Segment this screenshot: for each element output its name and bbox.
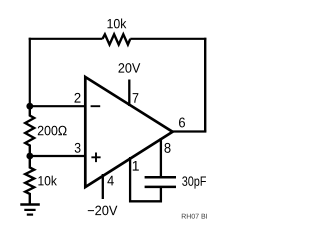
pin 7 stub (V+ supply) xyxy=(128,80,130,107)
node A junction dot (inverting input node) xyxy=(26,103,33,110)
wire: node B to pin 3 xyxy=(30,155,86,157)
capacitor 30pF plates xyxy=(145,177,176,202)
pin 4 label xyxy=(107,176,113,186)
resistor 10k (left lower zigzag to ground) xyxy=(25,156,34,204)
pin 7 label xyxy=(133,93,139,103)
wire: top feedback wire right segment xyxy=(130,38,206,40)
minus sign (inverting input marker) xyxy=(91,105,101,107)
pin 1 stub xyxy=(129,157,131,202)
figure id RH07 BI xyxy=(182,214,207,219)
wire: pin 1 to capacitor bottom xyxy=(129,200,162,202)
value label 10k (top) xyxy=(108,19,127,29)
value label 10k (left) xyxy=(38,176,57,186)
node B junction dot (non-inverting input node) xyxy=(26,153,33,160)
pin 1 label xyxy=(133,161,139,171)
wire: right vertical from feedback to output xyxy=(204,38,206,132)
wire: top feedback wire left segment xyxy=(29,38,103,40)
pin 6 label xyxy=(179,118,185,128)
pin 3 label xyxy=(75,143,81,153)
value label 200ohm xyxy=(38,126,67,136)
pin 8 label xyxy=(164,143,170,153)
op-amp U1 triangle xyxy=(85,77,172,187)
value label 30pF xyxy=(182,176,206,188)
ground symbol xyxy=(20,205,40,215)
resistor 10k (top feedback zigzag) xyxy=(103,34,131,44)
plus sign (non-inverting input marker) xyxy=(91,153,100,163)
pin 2 label xyxy=(75,93,81,103)
wire: left vertical from top wire down to node A xyxy=(29,38,31,107)
pin 8 stub xyxy=(160,138,162,177)
pin 4 stub (V- supply) xyxy=(102,174,104,199)
supply label 20V xyxy=(119,63,141,73)
resistor 200ohm (left upper zigzag) xyxy=(25,106,34,156)
wire: op-amp output to right vertical xyxy=(172,130,206,132)
wire: node A to pin 2 xyxy=(30,105,86,107)
supply label -20V xyxy=(88,206,118,216)
